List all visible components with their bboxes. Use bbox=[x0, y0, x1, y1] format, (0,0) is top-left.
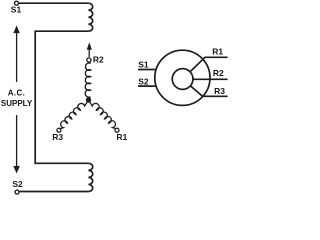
svg-text:S1: S1 bbox=[138, 60, 149, 70]
arrow R2 head bbox=[87, 43, 91, 49]
wire from L2 bottom to terminal S2 bbox=[19, 191, 88, 193]
A.C. supply double arrow annotation bbox=[14, 26, 20, 173]
inner circle (shaft) bbox=[172, 69, 193, 90]
terminal R3 bbox=[57, 128, 61, 132]
wire from L1 bottom through corner to lower corner bbox=[35, 31, 88, 163]
rotor coil R1 (to lower-right) bbox=[89, 100, 116, 129]
svg-text:S1: S1 bbox=[11, 5, 22, 15]
terminal R1 bbox=[115, 128, 119, 132]
stator coil L2 (bottom) bbox=[88, 163, 92, 191]
svg-text:A.C.: A.C. bbox=[8, 89, 26, 98]
terminal S2 bbox=[15, 190, 19, 194]
terminal S1 bbox=[15, 1, 19, 5]
svg-text:S2: S2 bbox=[138, 77, 149, 87]
svg-text:R2: R2 bbox=[93, 55, 104, 65]
slip-ring end view bbox=[138, 50, 228, 105]
S2 lead bbox=[138, 85, 156, 87]
outer circle (stator frame) bbox=[155, 50, 210, 105]
svg-text:SUPPLY: SUPPLY bbox=[1, 99, 33, 108]
rotor coil R3 (to lower-left) bbox=[60, 100, 88, 129]
S1 lead bbox=[138, 69, 156, 71]
arrow down shaft bbox=[16, 115, 18, 166]
R3 lead bbox=[191, 86, 228, 96]
terminal R2 bbox=[87, 58, 91, 62]
svg-text:R3: R3 bbox=[214, 86, 225, 96]
R2 lead bbox=[193, 78, 227, 80]
arrow up shaft bbox=[16, 32, 18, 83]
stator coil L1 (top) bbox=[88, 3, 92, 31]
wire from S1 to stator coil L1 bbox=[19, 2, 89, 4]
arrow R2 shaft bbox=[88, 49, 90, 58]
svg-text:R1: R1 bbox=[116, 132, 127, 142]
rotor coil R2 (vertical) bbox=[85, 62, 91, 98]
R1 lead bbox=[190, 57, 227, 71]
svg-text:R1: R1 bbox=[212, 46, 223, 56]
svg-text:S2: S2 bbox=[12, 179, 23, 189]
rotor star winding bbox=[57, 43, 119, 132]
star junction node bbox=[86, 97, 91, 102]
arrow up head bbox=[14, 26, 20, 33]
arrow down head bbox=[14, 166, 20, 173]
svg-text:R2: R2 bbox=[213, 68, 224, 78]
svg-text:R3: R3 bbox=[52, 132, 63, 142]
